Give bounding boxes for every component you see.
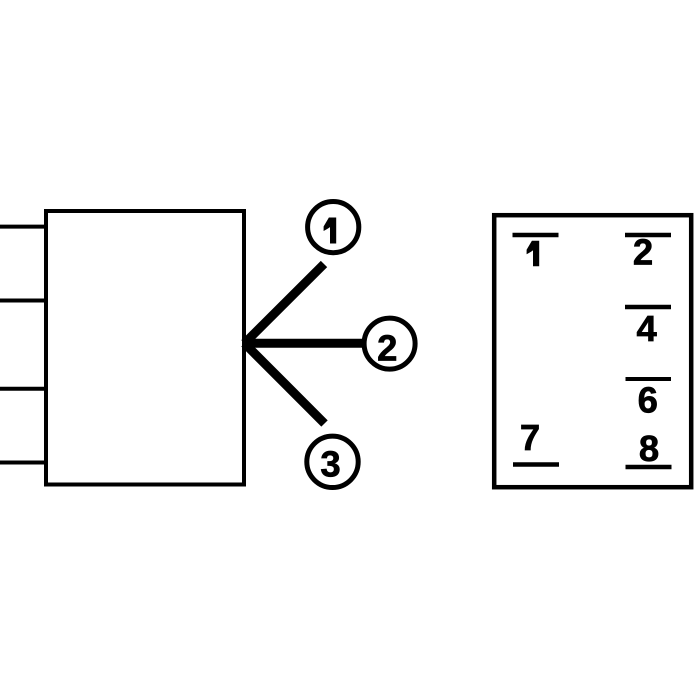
svg-text:4: 4	[637, 308, 658, 349]
svg-text:6: 6	[638, 380, 658, 421]
svg-text:7: 7	[520, 417, 540, 458]
svg-text:8: 8	[639, 428, 659, 469]
svg-text:3: 3	[320, 444, 340, 485]
svg-text:2: 2	[377, 328, 397, 369]
svg-text:2: 2	[633, 231, 653, 272]
